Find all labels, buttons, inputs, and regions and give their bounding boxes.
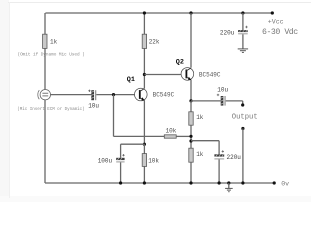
wire: emitter junction to R 10k [143,144,145,153]
capacitor C 220u (bypass, electrolytic) [214,150,224,159]
label 6-30 Vdc [262,27,298,37]
svg-text:BC549C: BC549C [199,71,221,78]
label 1k (upper) [196,114,204,121]
microphone MIC (ECM insert) [38,90,51,100]
capacitor C 100u (emitter bypass, electrolytic) [116,154,125,162]
svg-text:220u: 220u [227,154,242,161]
transistor Q1 BC549C [135,88,148,101]
wire: 1k to mic [44,48,46,89]
label BC549C (Q2) [199,71,221,78]
node: output ground terminal [241,127,244,130]
faint scan border left [9,2,10,198]
wire: emitter to C2 10u output [191,100,221,102]
label (Mic Insert ECM or Dynamic) [17,107,84,112]
svg-text:22k: 22k [149,39,160,46]
node: ground tap on rail [227,181,230,184]
svg-text:Q2: Q2 [176,59,184,67]
wire: C1 to Q1 base [96,94,134,96]
node: bypass junction [189,139,192,142]
svg-text:(Omit if Dynamo Mic Used ): (Omit if Dynamo Mic Used ) [18,53,85,58]
resistor R 1k (emitter upper) [189,112,193,125]
label +Vcc [268,18,284,25]
wire: emitter junction to 100u [121,144,145,158]
node: rail / Vcc filter [241,11,244,14]
svg-text:(Mic Insert ECM or Dynamic): (Mic Insert ECM or Dynamic) [17,107,84,112]
ground (supply filter) [238,49,248,53]
wire: rail to R 22k [143,13,145,34]
wire: bypass branch horizontal [191,141,219,155]
wire: C2 to output terminal [226,101,243,105]
svg-text:1k: 1k [196,114,204,121]
wire: 0v bottom rail [45,182,274,184]
wire: +Vcc top rail [45,12,272,14]
label 10k (emitter) [148,157,159,164]
label 220u (bypass) [227,154,242,161]
wire: mic signal to C1 [50,94,91,96]
wire: 10k to bottom rail [143,166,145,183]
wire: Q1 emitter down [143,101,145,145]
svg-text:1k: 1k [196,151,204,158]
label 1k (lower) [196,151,204,158]
node: base/feedback junction [112,93,115,96]
node: Q1 collector / Q2 base tap [143,73,146,76]
node: feedback junction [189,135,192,138]
capacitor C1 10u (input, electrolytic) [88,90,96,101]
label 10k (feedback) [166,127,177,134]
wire: feedback horizontal right [176,135,191,137]
wire: Q2 collector to rail [190,13,192,68]
label Q2 [176,59,184,67]
wire: R 1k upper to junction [190,125,192,148]
wire: Q2 base wire [144,74,181,76]
capacitor C2 10u (output, electrolytic) [217,94,226,106]
svg-text:1k: 1k [50,38,58,45]
label 10u (output) [217,87,228,94]
svg-text:10k: 10k [166,127,177,134]
label 10u (input) [88,103,99,110]
wire: Q2 emitter to R 1k upper [190,101,192,112]
node: output ground / rail [241,181,244,184]
resistor R 1k (emitter lower) [189,148,193,162]
node: Q2 emitter / output junction [189,99,192,102]
wire: feedback vertical [113,95,115,137]
faint scan margin left [0,0,9,202]
wire: feedback horizontal left [114,135,165,137]
wire: bypass cap to rail [218,159,220,183]
resistor R 10k (feedback, horizontal) [164,135,176,138]
node: rail / 22k [143,11,146,14]
wire: mic to bottom rail [44,100,46,183]
svg-text:220u: 220u [220,29,235,36]
resistor R 22k [142,34,146,48]
wire: Q2 emitter down [190,80,192,101]
resistor R 10k (emitter, vertical) [142,154,146,167]
svg-text:+Vcc: +Vcc [268,18,284,25]
node: bypass / rail [218,181,221,184]
svg-text:0v: 0v [281,180,289,187]
label 0v [281,180,289,187]
node: Q1 emitter junction [143,143,146,146]
svg-text:100u: 100u [98,157,113,164]
node: output terminal [241,103,244,106]
svg-text:6-30 Vdc: 6-30 Vdc [262,27,298,37]
wire: 22k to Q1 collector [143,48,145,88]
label (Omit if Dynamo Mic Used ) [18,53,85,58]
label Q1 [127,76,135,84]
wire: filter cap to ground [242,34,244,49]
faint scan border top [8,2,311,3]
svg-text:Q1: Q1 [127,76,135,84]
node: rail / Q2 collector [189,11,192,14]
faint scan margin bottom [0,196,311,202]
node: 0v terminal [273,181,276,184]
ground (main) [225,183,233,192]
label 1k (mic bias) [50,38,58,45]
svg-text:10u: 10u [217,87,228,94]
wire: left rail top segment [44,13,46,34]
node: +Vcc terminal [271,11,274,14]
node: 1k / rail [189,181,192,184]
label 100u [98,157,113,164]
label Output [232,113,258,121]
wire: 100u to bottom rail [120,162,122,183]
svg-text:Output: Output [232,113,258,121]
svg-text:BC549C: BC549C [153,91,175,98]
capacitor C 220u (supply filter, electrolytic) [238,26,248,35]
label 22k [149,39,160,46]
wire: rail to C 220u filter [242,13,244,30]
wire: output ground to rail [242,129,244,184]
label 220u (filter) [220,29,235,36]
svg-text:10u: 10u [88,103,99,110]
node: 10k / rail [143,181,146,184]
label BC549C (Q1) [153,91,175,98]
node: 100u / rail [119,181,122,184]
transistor Q2 BC549C [181,68,194,81]
resistor R 1k (mic bias) [43,34,47,48]
svg-text:10k: 10k [148,157,159,164]
wire: R 1k lower to rail [190,162,192,183]
